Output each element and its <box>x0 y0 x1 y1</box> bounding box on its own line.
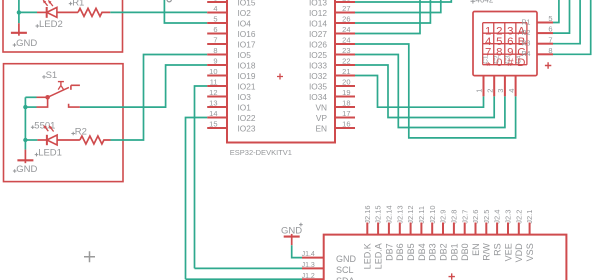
pin 10 IO19 <box>207 75 227 77</box>
wire from top to ESP32 IO4 <box>164 0 207 23</box>
svg-text:IO16: IO16 <box>238 29 256 39</box>
wire keypad pin7 up <box>553 0 580 44</box>
pin J2.1 VSS <box>529 223 531 235</box>
label LED1 <box>35 153 39 157</box>
svg-text:J2.9: J2.9 <box>439 210 448 224</box>
ESP32 origin marker <box>277 74 283 80</box>
wire IO14 up <box>355 0 430 23</box>
wire <box>25 139 37 141</box>
LED LED2 <box>46 7 48 18</box>
label GND (box1) <box>13 43 17 47</box>
resistor R1 <box>78 8 110 16</box>
ground (box1) <box>18 12 20 23</box>
svg-text:ESP32-DEVKITV1: ESP32-DEVKITV1 <box>230 148 292 157</box>
pin J2.10 DB3 <box>431 223 433 235</box>
wire IO26 to keypad pin4 <box>355 44 516 138</box>
svg-text:24: 24 <box>342 25 350 34</box>
svg-text:R3: R3 <box>522 40 531 47</box>
ground (box2) <box>24 140 26 150</box>
wire SDA run <box>186 278 303 280</box>
keypad K1 body <box>473 12 537 76</box>
svg-text:4: 4 <box>213 4 217 13</box>
svg-text:J2.8: J2.8 <box>450 210 459 224</box>
pin 24 IO27 <box>335 33 355 35</box>
pin 12 IO3 <box>207 96 227 98</box>
svg-text:IO27: IO27 <box>309 29 327 39</box>
svg-text:VSS: VSS <box>525 243 535 261</box>
svg-text:LED.K: LED.K <box>363 243 373 269</box>
svg-text:DB4: DB4 <box>417 243 427 261</box>
subcircuit box S1/LED1/R2 <box>4 64 124 182</box>
svg-text:IO32: IO32 <box>309 71 327 81</box>
svg-text:R2: R2 <box>522 30 531 37</box>
pin J1.2 SDA <box>302 278 324 280</box>
svg-text:12: 12 <box>209 88 217 97</box>
svg-text:9: 9 <box>213 57 217 66</box>
wire S1 to ESP32 IO18 <box>80 65 207 107</box>
svg-text:J2.6: J2.6 <box>471 210 480 224</box>
svg-text:IO14: IO14 <box>309 18 327 28</box>
pin J2.12 DB5 <box>410 223 412 235</box>
pin 26 IO14 <box>335 22 355 24</box>
svg-text:IO17: IO17 <box>238 39 256 49</box>
svg-text:IO22: IO22 <box>238 113 256 123</box>
pin 11 IO21 <box>207 85 227 87</box>
pin J2.8 DB1 <box>453 223 455 235</box>
LED D2 lead <box>37 11 47 13</box>
svg-text:J2.10: J2.10 <box>428 205 437 223</box>
pin 24 IO26 <box>335 43 355 45</box>
svg-text:13: 13 <box>209 99 217 108</box>
pushbutton S1 <box>45 95 50 100</box>
LED LED1 <box>37 139 47 141</box>
svg-text:IO1: IO1 <box>238 102 252 112</box>
svg-text:J1.2: J1.2 <box>302 273 315 280</box>
pin 13 IO1 <box>207 106 227 108</box>
svg-text:DB3: DB3 <box>428 243 438 261</box>
svg-text:5: 5 <box>548 14 552 23</box>
svg-text:IO35: IO35 <box>309 81 327 91</box>
keypad origin marker <box>545 62 551 68</box>
svg-text:LED.A: LED.A <box>374 243 384 269</box>
svg-text:IO15: IO15 <box>238 0 256 7</box>
pin 8 IO5 <box>207 54 227 56</box>
svg-text:J2.7: J2.7 <box>460 210 469 224</box>
svg-text:15: 15 <box>209 120 217 129</box>
label S1 <box>42 75 46 79</box>
label GND (box2) <box>13 169 17 173</box>
pin J2.7 DB0 <box>464 223 466 235</box>
svg-text:19: 19 <box>342 88 350 97</box>
svg-text:4: 4 <box>507 89 516 93</box>
svg-text:C2: C2 <box>493 55 500 64</box>
svg-text:22: 22 <box>342 57 350 66</box>
svg-text:IO21: IO21 <box>238 81 256 91</box>
svg-text:EN: EN <box>471 243 481 256</box>
node junction LED1 <box>23 138 27 142</box>
wire IO33 to keypad pin2 <box>355 65 494 118</box>
svg-text:24: 24 <box>342 36 350 45</box>
node junction box1 <box>17 10 21 14</box>
resistor R2 <box>80 136 111 144</box>
svg-text:IO18: IO18 <box>238 60 256 70</box>
wire IO25 to keypad pin3 <box>355 55 505 128</box>
keypad grid <box>483 23 527 65</box>
svg-text:C3: C3 <box>504 55 511 64</box>
svg-text:6: 6 <box>548 25 552 34</box>
node junction S1 net <box>23 105 27 109</box>
svg-text:J2.13: J2.13 <box>395 205 404 223</box>
pin 9 IO18 <box>207 64 227 66</box>
svg-text:GND: GND <box>16 164 37 175</box>
svg-text:8: 8 <box>213 46 217 55</box>
pin J2.15 LED.A <box>377 223 379 235</box>
svg-text:IO19: IO19 <box>238 71 256 81</box>
svg-text:C4: C4 <box>516 55 523 64</box>
svg-text:3: 3 <box>213 0 217 3</box>
svg-text:J2.15: J2.15 <box>374 205 383 223</box>
wire IO32 to keypad pin1 <box>355 76 484 108</box>
svg-text:20: 20 <box>342 78 350 87</box>
svg-text:J2.16: J2.16 <box>363 205 372 223</box>
ground (LCD) <box>299 223 303 227</box>
label R2 <box>71 132 75 136</box>
svg-text:J2.11: J2.11 <box>417 206 426 224</box>
pin 3 IO15 <box>207 1 227 3</box>
pin J2.2 VDD <box>518 223 520 235</box>
svg-text:SCL: SCL <box>336 265 354 275</box>
svg-text:DB1: DB1 <box>449 243 459 261</box>
svg-text:14: 14 <box>209 109 217 118</box>
svg-text:IO12: IO12 <box>309 8 327 18</box>
svg-text:8: 8 <box>548 46 552 55</box>
pin J1.4 GND <box>302 257 324 259</box>
pin J2.3 VEE <box>507 223 509 235</box>
pin J2.14 DB7 <box>388 223 390 235</box>
keypad label (clipped) <box>471 0 476 4</box>
pin 14 IO22 <box>207 117 227 119</box>
LCD module body (clipped at bottom/right) <box>324 235 567 280</box>
pin J2.13 DB6 <box>399 223 401 235</box>
svg-text:1: 1 <box>475 89 484 93</box>
pin 23 IO25 <box>335 54 355 56</box>
svg-text:J2.3: J2.3 <box>504 210 513 224</box>
keypad bottom pins 1-4 <box>483 76 485 97</box>
svg-text:IO34: IO34 <box>309 92 327 102</box>
svg-text:7: 7 <box>548 35 552 44</box>
net stub circle (cut at top) <box>167 0 171 2</box>
keypad right pins 5-8 <box>537 22 553 24</box>
svg-text:GND: GND <box>336 254 357 264</box>
svg-text:J2.5: J2.5 <box>482 210 491 224</box>
LCD origin marker <box>449 273 455 279</box>
pin 27 IO12 <box>335 12 355 14</box>
svg-text:SDA: SDA <box>336 276 355 280</box>
wire IO12 up <box>355 0 441 13</box>
wire keypad pin6 up <box>553 0 570 33</box>
svg-text:DB7: DB7 <box>384 243 394 261</box>
pin J2.16 LED.K <box>366 223 368 235</box>
svg-text:17: 17 <box>342 109 350 118</box>
svg-text:IO5: IO5 <box>238 50 252 60</box>
svg-text:IO4: IO4 <box>238 18 252 28</box>
svg-text:J2.4: J2.4 <box>493 210 502 224</box>
svg-text:26: 26 <box>342 15 350 24</box>
wire SCL run <box>195 267 303 269</box>
pin 20 IO35 <box>335 85 355 87</box>
pin J1.3 SCL <box>302 267 324 269</box>
wire IO22 to LCD SDA <box>186 118 208 280</box>
pin J2.6 EN <box>475 223 477 235</box>
svg-text:10: 10 <box>209 67 217 76</box>
svg-text:IO2: IO2 <box>238 8 252 18</box>
svg-text:LED1: LED1 <box>38 148 62 159</box>
svg-text:VEE: VEE <box>503 243 513 261</box>
svg-text:J2.12: J2.12 <box>406 205 415 223</box>
wire GND to J1.4 <box>292 245 302 257</box>
svg-text:VDD: VDD <box>514 243 524 263</box>
svg-text:IO13: IO13 <box>309 0 327 7</box>
subcircuit box LED2/R1 <box>3 0 123 52</box>
wire IO27 up <box>355 0 420 34</box>
pin 16 EN <box>335 127 355 129</box>
svg-text:J1.4: J1.4 <box>302 251 315 258</box>
svg-text:21: 21 <box>342 67 350 76</box>
svg-text:DB5: DB5 <box>406 243 416 261</box>
svg-text:IO33: IO33 <box>309 60 327 70</box>
svg-text:3: 3 <box>496 89 505 93</box>
wire <box>18 0 20 12</box>
wire R2 to ESP32 IO5 <box>111 55 208 141</box>
pin 4 IO2 <box>207 12 227 14</box>
svg-text:S1: S1 <box>46 70 58 81</box>
svg-text:DB6: DB6 <box>395 243 405 261</box>
svg-text:J2.2: J2.2 <box>514 210 523 224</box>
svg-text:RS: RS <box>493 243 503 256</box>
svg-text:IO23: IO23 <box>238 123 256 133</box>
wire <box>19 11 37 13</box>
svg-text:IO26: IO26 <box>309 39 327 49</box>
svg-text:R1: R1 <box>72 0 84 8</box>
svg-text:IO3: IO3 <box>238 92 252 102</box>
svg-text:J1.3: J1.3 <box>302 262 315 269</box>
svg-text:R4: R4 <box>522 51 531 58</box>
svg-text:J2.1: J2.1 <box>525 210 534 224</box>
svg-text:DB0: DB0 <box>460 243 470 261</box>
svg-text:R1: R1 <box>522 19 531 26</box>
svg-text:DB2: DB2 <box>438 243 448 261</box>
canvas origin marker <box>84 251 95 262</box>
pin 6 IO16 <box>207 33 227 35</box>
pin 18 VN <box>335 106 355 108</box>
svg-text:7: 7 <box>213 36 217 45</box>
svg-text:J2.14: J2.14 <box>385 205 394 223</box>
svg-text:R/W: R/W <box>482 243 492 261</box>
svg-text:16: 16 <box>342 120 350 129</box>
svg-text:C1: C1 <box>482 55 489 64</box>
pin 28 IO13 <box>335 1 355 3</box>
svg-text:LED2: LED2 <box>39 19 63 30</box>
pin 17 VP <box>335 117 355 119</box>
pin J2.11 DB4 <box>420 223 422 235</box>
pin 7 IO17 <box>207 43 227 45</box>
svg-text:VN: VN <box>315 102 327 112</box>
pin 5 IO4 <box>207 22 227 24</box>
label R1 <box>69 2 73 6</box>
wire S1 left to net <box>25 96 36 98</box>
wire IO13 up <box>355 0 451 2</box>
svg-text:VP: VP <box>316 113 328 123</box>
LED1 emission arrows <box>45 127 49 132</box>
wire IO21 to LCD SCL <box>195 86 208 268</box>
svg-text:5: 5 <box>213 15 217 24</box>
wire R1 to ESP32 IO2 <box>110 11 207 13</box>
svg-text:11: 11 <box>210 78 218 87</box>
op IC U1 ESP32-DEVKITV1 body <box>227 0 335 143</box>
svg-text:GND: GND <box>16 38 37 49</box>
wire keypad pin5 up <box>553 0 559 23</box>
svg-text:2: 2 <box>485 89 494 93</box>
label 5501 <box>31 125 35 129</box>
svg-text:IO25: IO25 <box>309 50 327 60</box>
pin J2.5 R/W <box>485 223 487 235</box>
svg-text:28: 28 <box>342 0 350 3</box>
svg-text:EN: EN <box>315 123 327 133</box>
svg-text:R2: R2 <box>75 127 87 138</box>
pin 21 IO32 <box>335 75 355 77</box>
pin 22 IO33 <box>335 64 355 66</box>
svg-text:18: 18 <box>342 99 350 108</box>
LED2 emission arrows <box>44 1 48 6</box>
pin 19 IO34 <box>335 96 355 98</box>
keypad col labels C1-C4 rotated <box>482 55 489 64</box>
svg-text:4042: 4042 <box>476 0 494 5</box>
svg-text:6: 6 <box>213 25 217 34</box>
pin J2.4 RS <box>496 223 498 235</box>
label LED2 <box>36 24 40 28</box>
pin J2.9 DB2 <box>442 223 444 235</box>
svg-text:23: 23 <box>342 46 350 55</box>
wire keypad pin8 up <box>553 0 591 54</box>
svg-text:27: 27 <box>342 4 350 13</box>
pin 15 IO23 <box>207 127 227 129</box>
